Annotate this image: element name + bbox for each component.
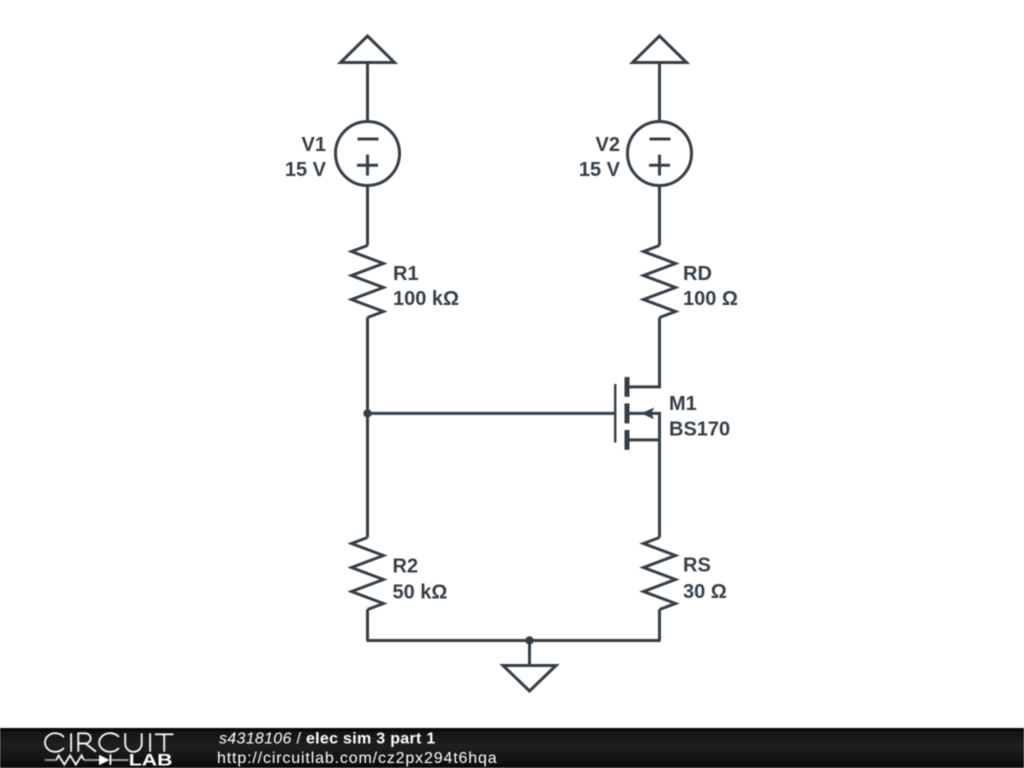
wire V2 to RD (658, 186, 661, 246)
resistor R2 (352, 538, 384, 610)
svg-text:30 Ω: 30 Ω (683, 581, 727, 603)
VCC power arrow (left) (341, 36, 395, 63)
logo word CIRCUIT (45, 733, 174, 752)
transistor M1 body arrow (641, 408, 654, 420)
logo wire to LAB (111, 759, 128, 761)
svg-text:R1: R1 (393, 263, 419, 285)
svg-text:V1: V1 (302, 134, 326, 156)
resistor R1 (352, 246, 384, 318)
logo letter C (99, 733, 119, 752)
wire RS to bottom rail (658, 610, 661, 641)
node junction dot (gate node) (363, 409, 371, 417)
transistor M1 channel segments (625, 377, 630, 450)
logo letter I (70, 733, 72, 752)
svg-text:s4318106 / elec sim 3 part 1: s4318106 / elec sim 3 part 1 (219, 730, 436, 747)
gate wire node to M1 (368, 412, 616, 415)
logo letter R (78, 733, 96, 752)
ground symbol (503, 666, 556, 692)
footer bar (0, 728, 1024, 768)
svg-text:15 V: 15 V (579, 159, 621, 181)
wire V1 to R1 (366, 186, 369, 246)
logo lead wire left (45, 759, 57, 761)
resistor RD (644, 246, 676, 318)
node junction dot (ground node) (525, 636, 533, 644)
logo letter U (125, 733, 142, 751)
logo letter C (45, 733, 64, 752)
wire M1 source to RS (627, 440, 660, 538)
transistor M1 body wire and source (627, 413, 660, 440)
logo diode cathode bar (109, 754, 111, 765)
resistor RS (644, 538, 676, 610)
wire arrow to V1 (366, 63, 369, 122)
svg-text:BS170: BS170 (669, 419, 730, 441)
voltage source V2 (628, 122, 692, 186)
svg-text:R2: R2 (393, 556, 419, 578)
wire RD to M1 drain (627, 318, 660, 387)
svg-text:http://circuitlab.com/cz2px294: http://circuitlab.com/cz2px294t6hqa (217, 750, 498, 767)
logo letter T (155, 734, 174, 752)
svg-text:V2: V2 (596, 134, 620, 156)
svg-text:100 kΩ: 100 kΩ (393, 288, 459, 310)
svg-text:RS: RS (683, 555, 711, 577)
wire arrow to V2 (658, 63, 661, 122)
svg-text:15 V: 15 V (285, 159, 327, 181)
logo diode (99, 755, 110, 765)
svg-text:RD: RD (683, 263, 712, 285)
logo resistor squiggle (56, 755, 84, 764)
svg-text:50 kΩ: 50 kΩ (393, 581, 448, 603)
bottom rail wire (367, 639, 661, 642)
ground stem wire (528, 641, 531, 666)
logo wire squiggle to diode (84, 759, 99, 761)
voltage source V1 (336, 122, 400, 186)
logo letter I (149, 733, 151, 752)
svg-text:LAB: LAB (129, 751, 173, 768)
wire R1 to node and R2 (366, 318, 369, 538)
wire R2 to bottom rail (366, 610, 369, 641)
VCC power arrow (right) (633, 36, 687, 63)
svg-text:M1: M1 (669, 393, 697, 415)
svg-text:100 Ω: 100 Ω (683, 288, 738, 310)
transistor M1 gate bar (614, 384, 616, 443)
